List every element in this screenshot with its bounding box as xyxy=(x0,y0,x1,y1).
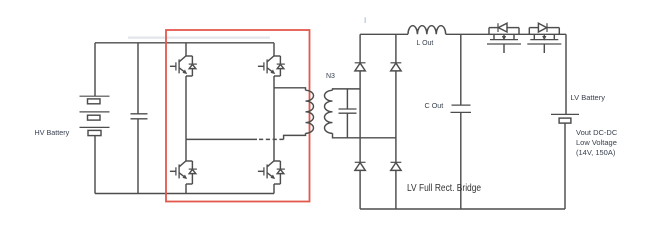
diode: Q4 anti-parallel diode xyxy=(277,161,285,184)
label: LV Full Rect. Bridge xyxy=(407,183,481,194)
wire: left rectifier rail lower xyxy=(359,170,361,209)
inductor L Out xyxy=(408,26,446,35)
diode D4 (rectifier, right bottom) xyxy=(391,162,402,170)
wire: primary bottom lead jog xyxy=(284,133,306,139)
transistor Q2 (IGBT, bridge top-right) xyxy=(258,43,281,76)
transistor Q5 (MOSFET, output switch left) xyxy=(487,34,521,53)
wire: node A lead to left leg xyxy=(186,138,257,140)
transistor Q3 (IGBT, bridge bottom-left) xyxy=(170,139,193,193)
label: Vout DC-DC xyxy=(576,129,617,137)
label: HV Battery xyxy=(35,129,70,136)
label: Low Voltage xyxy=(576,139,617,147)
wire: left leg, Q1 emitter to node A xyxy=(185,76,187,139)
label: N3 (transformer) xyxy=(326,73,335,80)
wire: rectifier output to L Out xyxy=(360,33,408,35)
wire: LV battery negative lead xyxy=(564,123,566,209)
bridge highlight box (red outline) xyxy=(166,30,310,202)
diode: Q2 anti-parallel diode xyxy=(277,56,285,76)
diode: Q1 anti-parallel diode xyxy=(189,56,197,76)
diode D2 (rectifier, right top) xyxy=(391,63,402,71)
diode: Q6 body diode xyxy=(529,23,559,34)
wire: HV- bottom rail xyxy=(95,193,274,195)
wire: HV battery negative lead xyxy=(94,136,96,194)
diode D1 (rectifier, left top) xyxy=(355,63,366,71)
label: LV Battery xyxy=(571,94,605,102)
label: (14V, 150A) xyxy=(576,149,615,157)
wire: node A lead crossing right leg (broken look) xyxy=(257,138,284,140)
wire: C Out bottom lead xyxy=(460,112,462,209)
wire: secondary bottom lead xyxy=(333,133,396,138)
transistor Q4 (IGBT, bridge bottom-right) xyxy=(258,161,281,194)
transistor Q1 (IGBT, bridge top-left) xyxy=(170,43,193,76)
wire: snubber capacitor top lead xyxy=(346,89,348,109)
label: L Out xyxy=(417,40,434,47)
capacitor C Out xyxy=(451,105,472,112)
wire: output node down to LV battery xyxy=(565,34,567,114)
transistor Q6 (MOSFET, output switch right) xyxy=(527,34,561,53)
wire: right rectifier rail lower xyxy=(395,170,397,209)
wire: C Out top lead xyxy=(460,34,462,105)
battery B2 (LV Battery) xyxy=(551,114,579,123)
wire: node B to primary top xyxy=(274,88,306,91)
wire: HV battery positive lead xyxy=(94,43,96,96)
diode: Q5 body diode xyxy=(489,23,519,34)
wire: snubber capacitor bottom lead xyxy=(346,113,348,138)
wire: right rectifier rail upper xyxy=(395,34,397,63)
wire: secondary top lead xyxy=(333,89,361,90)
wire: LV- bottom rail xyxy=(360,208,565,210)
wire: DC-link capacitor top lead xyxy=(137,43,139,114)
transformer T1 secondary winding xyxy=(325,90,333,133)
wire: L Out to output node xyxy=(446,33,566,35)
scan artifact: faint gray band above top rail xyxy=(128,36,270,38)
diode: Q3 anti-parallel diode xyxy=(189,161,197,184)
wire: right leg, Q2 emitter through node B xyxy=(273,76,275,161)
wire: DC-link capacitor bottom lead xyxy=(137,119,139,194)
wire: left rectifier rail middle xyxy=(359,71,361,162)
wire: HV+ top rail xyxy=(95,42,274,44)
battery B1 (HV Battery) xyxy=(80,96,110,135)
wire: right rectifier rail middle xyxy=(395,71,397,162)
capacitor: secondary snubber cap xyxy=(339,109,357,113)
diode D3 (rectifier, left bottom) xyxy=(355,162,366,170)
label: C Out xyxy=(425,102,444,109)
capacitor C-link (HV DC link) xyxy=(131,114,148,119)
transformer T1 primary winding xyxy=(306,90,314,133)
wire: left rectifier rail upper xyxy=(359,34,361,63)
cursor artifact (faint blue tick) xyxy=(364,17,366,23)
